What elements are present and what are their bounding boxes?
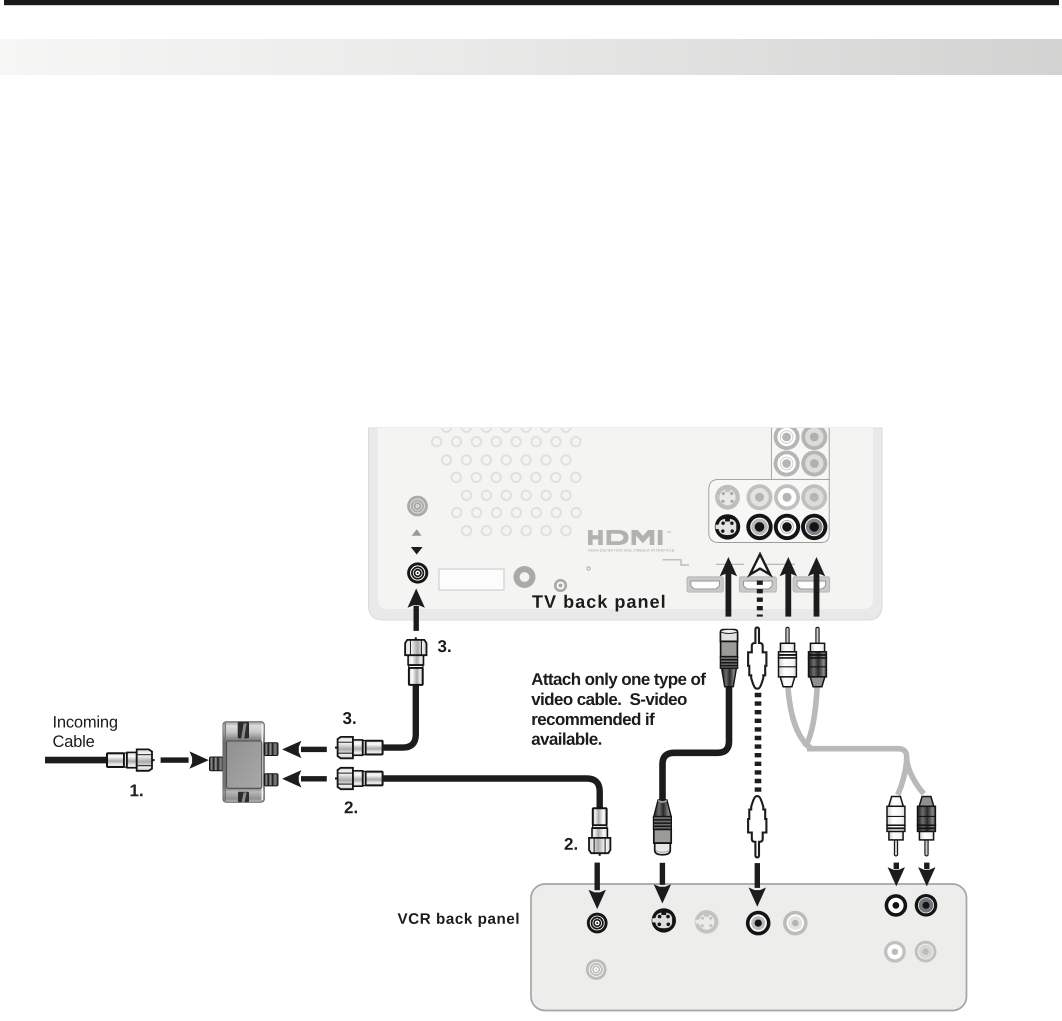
VCR back panel label bbox=[398, 913, 519, 927]
VCR antenna coax black bbox=[587, 913, 608, 934]
decorative step line bbox=[663, 560, 690, 565]
component jack 2 gray bbox=[801, 451, 827, 477]
up arrow into TV antenna bbox=[408, 589, 425, 631]
incoming cable line bbox=[45, 757, 107, 764]
down arrow into VCR antenna bbox=[589, 863, 606, 910]
decorative line segment B bbox=[765, 563, 795, 565]
gray up triangle bbox=[412, 529, 422, 536]
composite plug outline into VCR bbox=[748, 796, 766, 857]
audio plug white into VCR bbox=[887, 796, 905, 855]
composite plug outline into TV bbox=[748, 627, 766, 688]
black RCA audio L in TV bbox=[774, 514, 800, 540]
component jack Pb (gray) bbox=[801, 424, 827, 450]
vent hole grid bbox=[432, 423, 581, 536]
VCR back panel body bbox=[531, 884, 967, 1011]
splitter body bbox=[223, 722, 264, 802]
faded RCA video TV bbox=[747, 484, 773, 510]
HDMI port 3 bbox=[793, 577, 830, 592]
VCR video RCA black bbox=[746, 911, 771, 936]
audio cable gray main run bbox=[807, 749, 907, 760]
S-video plug into TV bbox=[720, 629, 737, 686]
top black bar bbox=[4, 0, 1059, 5]
VCR audio R black bbox=[915, 894, 938, 917]
faded RCA audio R TV bbox=[801, 484, 827, 510]
audio plug dark into VCR bbox=[918, 796, 936, 855]
VCR audio R faded bbox=[915, 941, 937, 963]
VCR video RCA faded bbox=[783, 911, 808, 936]
TV back panel label bbox=[532, 595, 664, 612]
cable 2 F-connector at splitter bbox=[335, 768, 383, 789]
up arrow into TV S-video bbox=[720, 557, 737, 617]
S-video plug into VCR bbox=[653, 800, 671, 855]
up arrow into TV audio L bbox=[780, 557, 797, 617]
splitter input thread bbox=[210, 757, 224, 771]
VCR coax faded bbox=[586, 959, 607, 980]
cable 3 F-connector pointing up at TV bbox=[405, 637, 426, 685]
label 2. at VCR cable bbox=[565, 838, 577, 850]
black RCA audio R in TV bbox=[801, 514, 827, 540]
label 3. at splitter bbox=[343, 712, 356, 724]
left arrow into splitter top output bbox=[282, 741, 327, 758]
faded S-video jack TV bbox=[715, 485, 740, 510]
VCR S-video faded bbox=[695, 910, 719, 934]
up arrow into TV audio R bbox=[808, 557, 825, 617]
VCR audio L faded bbox=[884, 941, 906, 963]
label plate rectangle bbox=[439, 569, 504, 590]
HDMI port 1 bbox=[687, 577, 723, 592]
down arrow into VCR S-video bbox=[654, 863, 671, 904]
cable 2 wire bbox=[382, 779, 600, 809]
label 2. at splitter bbox=[345, 801, 357, 813]
TV back panel outer shell bbox=[369, 428, 883, 620]
attach note text bbox=[532, 673, 706, 689]
AV input box bbox=[709, 479, 829, 542]
component jack 2 white bbox=[774, 451, 800, 477]
audio cable gray Y at TV bbox=[788, 684, 811, 748]
tiny screw circle bbox=[587, 567, 590, 570]
incoming cable F-connector 1 bbox=[107, 749, 155, 770]
down arrow into VCR audio R bbox=[918, 863, 935, 887]
component jack Y (white) bbox=[774, 424, 800, 450]
faded RCA audio L TV bbox=[774, 484, 800, 510]
label Incoming Cable bbox=[54, 716, 117, 731]
cable 3 F-connector at splitter bbox=[335, 737, 383, 758]
HDMI port 2 bbox=[739, 577, 776, 592]
composite video dashed cable bbox=[755, 693, 762, 795]
VCR audio L black bbox=[885, 894, 908, 917]
splitter top clamp tab bbox=[238, 722, 249, 739]
arrow right into splitter bbox=[161, 751, 209, 768]
label 1. bbox=[131, 785, 143, 797]
faded antenna jack on TV bbox=[407, 496, 428, 517]
S-video cable wire bbox=[663, 687, 730, 800]
audio plug dark into TV bbox=[809, 627, 827, 686]
dashed up arrow into TV video (open head) bbox=[750, 554, 770, 616]
black S-video jack TV bbox=[715, 514, 740, 539]
TV antenna coax input (black) bbox=[407, 562, 428, 583]
splitter output thread top bbox=[264, 743, 278, 756]
decorative line segment A bbox=[716, 563, 744, 565]
component input box (top right) bbox=[771, 424, 829, 479]
label 3. at TV cable bbox=[438, 640, 451, 652]
VCR S-video black bbox=[652, 908, 676, 932]
black RCA video in TV bbox=[746, 514, 772, 540]
cable 3 wire bbox=[382, 686, 416, 748]
audio plug white into TV bbox=[779, 627, 797, 686]
TV back panel inner face bbox=[378, 428, 874, 609]
splitter output thread bottom bbox=[264, 774, 278, 786]
splitter device bbox=[210, 722, 279, 802]
gray donut connector bbox=[514, 566, 536, 588]
audio cable gray fork at VCR bbox=[898, 759, 907, 795]
splitter front face bbox=[227, 741, 262, 788]
down arrow into VCR audio L bbox=[888, 863, 905, 887]
cable 2 F-connector pointing down at VCR bbox=[589, 808, 610, 856]
down arrow into VCR video bbox=[749, 863, 766, 907]
HDMI logo bbox=[588, 530, 674, 552]
left arrow into splitter bottom output bbox=[282, 770, 327, 787]
gray gradient header band bbox=[0, 39, 1062, 75]
splitter bottom clamp tab bbox=[238, 792, 249, 802]
small gray jack bbox=[554, 579, 567, 592]
black down triangle bbox=[411, 547, 423, 555]
